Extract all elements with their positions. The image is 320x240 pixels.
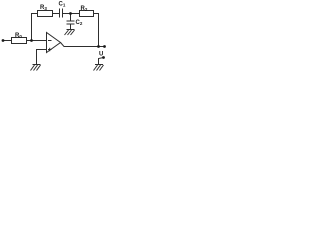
svg-text:R2: R2 (81, 6, 88, 12)
svg-text:C1: C1 (59, 2, 66, 8)
svg-text:R0: R0 (15, 33, 22, 39)
svg-text:C2: C2 (76, 20, 83, 26)
svg-text:U: U (99, 52, 103, 58)
svg-text:R3: R3 (40, 5, 47, 11)
